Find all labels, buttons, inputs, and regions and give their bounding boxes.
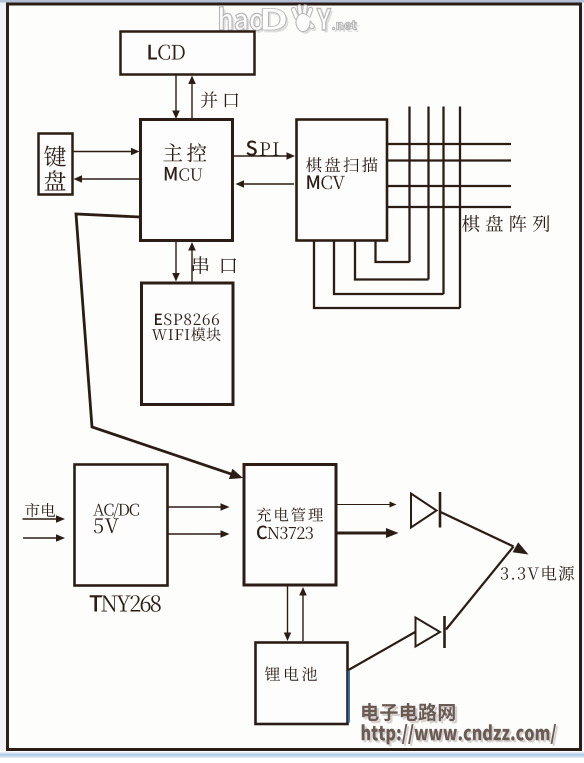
wire scanner to MCU — [236, 180, 295, 188]
net label SPI — [246, 141, 278, 156]
wire charger to battery (down arrow) — [284, 585, 291, 641]
wire D1 to 3.3V node — [441, 512, 514, 547]
wire mains input 1 — [23, 515, 66, 523]
wire mains input 2 — [23, 534, 65, 542]
wire matrix return loop 2 — [355, 241, 429, 280]
block keyboard 键盘 — [39, 134, 73, 195]
block AC/DC converter TNY268 — [75, 465, 168, 586]
wire D2 to 3.3V node — [446, 547, 514, 630]
block chessboard-scan MCV 棋盘扫描 — [297, 120, 388, 241]
wire parallel-port LCD to MCU (down arrow) — [172, 75, 180, 119]
wire matrix return loop 1 — [376, 241, 410, 262]
wire AC/DC to charger 1 — [168, 503, 230, 511]
wire charger output thin — [336, 502, 397, 508]
wire matrix row 2 — [388, 159, 511, 161]
net label 串口 (serial port) — [193, 256, 236, 274]
wire matrix return loop 3 — [334, 241, 444, 294]
wire serial ESP8266 to MCU (up arrow) — [188, 242, 196, 282]
value label TNY268 — [90, 595, 161, 612]
block ESP8266 WIFI module — [142, 283, 234, 405]
block LCD — [121, 32, 255, 75]
wire matrix row 1 — [388, 143, 511, 145]
wire SPI MCU to scanner — [233, 152, 295, 160]
wire parallel-port MCU to LCD (up arrow) — [188, 76, 196, 120]
wire charger output thick — [336, 528, 399, 538]
wire matrix column 2 — [427, 107, 429, 280]
block lithium battery 锂电池 — [256, 643, 349, 725]
wire matrix column 1 — [408, 107, 410, 263]
block charge manager CN3723 充电管理 — [244, 465, 336, 586]
node 3.3V output arrow — [513, 542, 529, 554]
wire serial MCU to ESP8266 (down arrow) — [172, 241, 180, 282]
node label 棋盘阵列 (chessboard array) — [462, 215, 549, 232]
wire battery to D2 — [349, 632, 417, 671]
wire AC/DC to charger 2 — [168, 530, 230, 538]
wire matrix row 4 — [388, 206, 511, 208]
net label 并口 (parallel port) — [201, 91, 238, 108]
wire battery to charger (up arrow) — [299, 587, 307, 641]
wire matrix return loop 4 — [314, 241, 460, 308]
wire MCU to keyboard — [74, 175, 141, 183]
wire matrix column 4 — [459, 107, 461, 309]
op-amp main controller block MCU 主控 — [141, 120, 233, 241]
net label 市电 (mains) — [25, 503, 55, 517]
net label 3.3V电源 — [501, 566, 574, 581]
wire matrix column 3 — [442, 107, 444, 295]
wire MCU to charge-manager (battery power path) — [76, 214, 243, 479]
diode D2 — [416, 616, 445, 648]
wire keyboard to MCU — [73, 148, 140, 155]
diode D1 — [411, 492, 440, 528]
wire matrix row 3 — [388, 185, 511, 187]
